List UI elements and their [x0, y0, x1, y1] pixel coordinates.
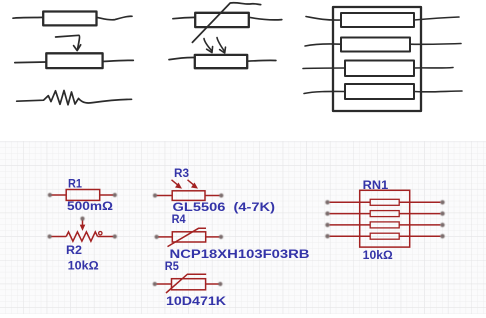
svg-text:10D471K: 10D471K	[166, 294, 226, 308]
pin 1	[51, 194, 66, 196]
resistor body	[46, 53, 102, 68]
svg-text:R3: R3	[174, 166, 189, 180]
svg-text:R2: R2	[66, 243, 82, 257]
pin dot	[325, 234, 329, 238]
sketch resistor network (big box with 4 resistors)	[303, 7, 462, 111]
wiper arrowhead	[80, 225, 86, 231]
wire	[13, 16, 43, 19]
pin	[330, 201, 371, 203]
pin dot	[153, 193, 157, 197]
pin 2	[100, 194, 114, 196]
pin 1	[158, 236, 172, 238]
pin dot	[155, 235, 159, 239]
pin dot	[219, 235, 223, 239]
resistor body	[345, 84, 414, 99]
wiper pin	[82, 220, 84, 226]
sketch resistor 1 (box style)	[13, 12, 132, 26]
wire	[414, 17, 459, 20]
svg-text:GL5506 (4-7K): GL5506 (4-7K)	[173, 200, 276, 214]
R3 body	[172, 191, 205, 201]
pin dot	[48, 234, 52, 238]
pin	[330, 224, 371, 226]
arrow	[56, 35, 80, 49]
pin dot	[113, 234, 117, 238]
svg-text:500mΩ: 500mΩ	[67, 199, 113, 213]
resistor network RN1	[330, 190, 441, 247]
svg-text:RN1: RN1	[363, 178, 389, 192]
pin dot	[440, 200, 444, 204]
potentiometer R2	[51, 220, 114, 242]
wire	[414, 67, 453, 70]
svg-text:NCP18XH103F03RB: NCP18XH103F03RB	[170, 247, 310, 261]
resistor body	[345, 61, 414, 77]
svg-text:R5: R5	[165, 259, 179, 273]
light arrowhead	[191, 183, 198, 189]
photoresistor R3	[156, 180, 220, 201]
schematic sheet background	[0, 141, 486, 314]
pin dot	[219, 193, 223, 197]
pin	[330, 213, 371, 215]
pin 2	[98, 236, 114, 238]
pin	[399, 201, 440, 203]
thermistor stroke	[168, 228, 207, 246]
resistor body	[341, 38, 410, 52]
wire	[410, 43, 461, 46]
pin dot	[440, 234, 444, 238]
pin 2	[206, 283, 219, 285]
pin dot	[440, 211, 444, 215]
resistor body	[195, 55, 247, 68]
arrowhead	[207, 47, 213, 53]
light arrowhead	[175, 183, 182, 189]
wire	[414, 90, 462, 93]
pin dot	[325, 223, 329, 227]
varistor R5	[156, 274, 219, 293]
wire	[247, 59, 276, 62]
sketch resistor 5 (box with light arrows / LDR)	[169, 38, 276, 69]
wire	[103, 60, 134, 61]
wire	[97, 16, 133, 20]
sketch resistor 3 (zigzag style)	[17, 91, 132, 105]
pin 1	[51, 236, 66, 238]
pin	[399, 224, 440, 226]
R2 zigzag body	[66, 232, 97, 241]
pin dot	[113, 193, 117, 197]
wire	[15, 61, 47, 64]
thermistor R4	[158, 228, 220, 246]
wire	[306, 17, 341, 21]
pin dot	[440, 223, 444, 227]
sketch resistor 4 (box with diagonal slash)	[173, 3, 282, 43]
RN1 element 1	[370, 199, 399, 205]
light arrow	[172, 180, 180, 187]
resistor R1 body	[66, 190, 100, 201]
resistor R1	[51, 190, 114, 201]
light arrow	[217, 38, 224, 52]
terminal circle	[99, 232, 102, 235]
wire	[305, 44, 341, 46]
R5 body	[172, 279, 206, 290]
pin dot	[48, 193, 52, 197]
pin dot	[325, 211, 329, 215]
arrowhead	[74, 45, 81, 51]
pin	[399, 235, 440, 237]
pin 2	[205, 195, 220, 197]
svg-text:R4: R4	[172, 212, 186, 226]
resistor body	[195, 13, 249, 27]
varistor stroke	[166, 274, 206, 293]
wire	[169, 57, 195, 59]
light arrow	[188, 180, 196, 187]
resistor body	[341, 13, 414, 27]
svg-text:10kΩ: 10kΩ	[363, 248, 393, 262]
pin 1	[156, 283, 171, 285]
RN1 element 4	[370, 233, 399, 239]
wire	[173, 17, 195, 18]
wire	[249, 17, 282, 20]
wire	[304, 91, 345, 93]
pin dot	[325, 200, 329, 204]
RN1 element 3	[370, 222, 399, 228]
pin	[399, 213, 440, 215]
pin dot	[218, 282, 222, 286]
pin dot	[80, 217, 84, 221]
sketch resistor 2 (box with wiper arrow)	[15, 35, 134, 68]
R4 body	[172, 232, 205, 242]
pin 1	[156, 195, 172, 197]
RN1 outline	[360, 190, 410, 247]
pin 2	[206, 236, 220, 238]
svg-text:10kΩ: 10kΩ	[68, 259, 99, 273]
RN1 element 2	[370, 211, 399, 217]
network body	[333, 7, 421, 111]
arrowhead	[220, 47, 226, 53]
diagonal stroke	[192, 3, 260, 43]
wire	[303, 67, 345, 70]
pin dot	[153, 282, 157, 286]
pin	[330, 235, 371, 237]
svg-text:R1: R1	[68, 177, 82, 191]
resistor body	[43, 12, 96, 26]
light arrow	[204, 39, 212, 51]
